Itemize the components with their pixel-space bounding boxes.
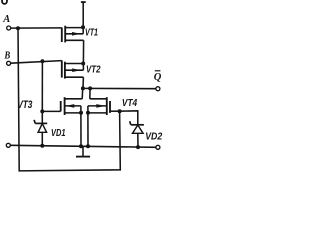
node output left — [81, 86, 85, 90]
wire VT2 drain to output node — [82, 77, 84, 88]
wire output to VT4 drain — [89, 88, 91, 98]
figure label б (clipped at top edge) — [2, 0, 7, 4]
node VT1 source/substrate — [81, 25, 85, 29]
transistor VT2 — [62, 60, 84, 78]
wire supply rail — [82, 2, 84, 27]
node VT3 gate junction — [40, 109, 44, 113]
label Q with overbar — [154, 70, 162, 83]
node VT2 source/substrate — [81, 62, 85, 66]
node A junction — [16, 26, 20, 30]
svg-text:VD1: VD1 — [51, 128, 66, 139]
wire VT3 source to 0V rail — [80, 113, 82, 146]
terminal B — [7, 61, 11, 65]
terminal 0V right — [156, 145, 160, 149]
svg-text:A: A — [2, 14, 10, 25]
node output right — [88, 86, 92, 90]
node VD1 to rail — [40, 144, 44, 148]
wire VT1 drain to VT2 source — [82, 40, 84, 63]
wire VT3 gate — [42, 110, 60, 112]
wire output to VT3 drain — [81, 88, 84, 98]
terminal 0V left — [6, 143, 10, 147]
diode VD1 — [34, 111, 47, 145]
terminal A — [7, 26, 11, 30]
wire gate node to VD2 — [120, 111, 138, 125]
node VT4 source at rail — [86, 144, 90, 148]
wire output Q — [83, 87, 156, 89]
terminal Q — [156, 87, 160, 91]
wire input A — [11, 27, 62, 29]
svg-text:Q: Q — [154, 72, 162, 83]
supply terminal tick — [81, 1, 86, 3]
svg-text:VT1: VT1 — [85, 28, 98, 39]
node VT3 source at rail — [79, 144, 83, 148]
node B junction — [40, 59, 44, 63]
node VT4 gate junction — [118, 109, 122, 113]
wire VT4 source to 0V rail — [87, 113, 89, 146]
node VT4 source/substrate — [86, 111, 90, 115]
svg-text:VD2: VD2 — [145, 131, 162, 142]
svg-text:VT4: VT4 — [122, 98, 138, 109]
transistor VT1 — [62, 26, 84, 43]
svg-text:B: B — [4, 50, 11, 61]
diode VD2 — [130, 121, 144, 147]
node VT3 source/substrate — [79, 111, 83, 115]
ground symbol — [76, 146, 90, 156]
transistor VT3 — [61, 97, 82, 115]
svg-text:VT2: VT2 — [86, 64, 101, 75]
wire 0V rail — [10, 145, 156, 147]
wire input B — [11, 61, 62, 64]
wire A branch down-around to VT4 gate — [18, 28, 120, 171]
wire VT4 gate — [110, 110, 120, 112]
node VD2 to rail — [136, 145, 140, 149]
transistor VT4 — [88, 97, 110, 115]
wire B branch down — [41, 61, 43, 111]
svg-text:VT3: VT3 — [17, 99, 32, 111]
